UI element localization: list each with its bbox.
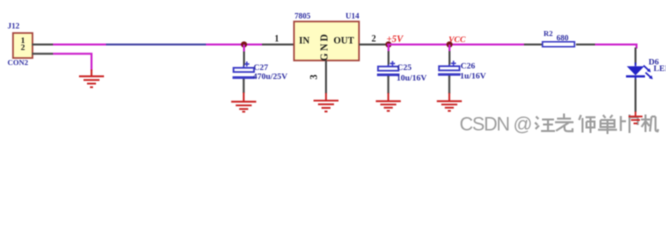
svg-text:3: 3 xyxy=(309,75,320,80)
wire C26 dark drop xyxy=(449,51,451,65)
wire +5V magenta rail xyxy=(387,44,524,46)
wire C27 to ground xyxy=(243,79,245,93)
svg-text:C26: C26 xyxy=(461,61,476,71)
wire C27 dark drop xyxy=(243,52,245,66)
svg-text:LED: LED xyxy=(654,63,666,73)
watermark hanzi DAN xyxy=(598,115,617,134)
ground GND1 (J12) xyxy=(79,70,104,88)
svg-text:10u/16V: 10u/16V xyxy=(397,72,428,82)
wire U14 input black segment xyxy=(262,44,294,46)
wire C25 dark drop xyxy=(388,51,390,65)
junction node +5V xyxy=(385,41,391,47)
LED D6 xyxy=(626,63,653,80)
J12 pin 2 lead xyxy=(32,53,53,55)
watermark hanzi WANG xyxy=(535,117,555,132)
svg-text:7805: 7805 xyxy=(295,12,311,21)
voltage regulator U1 body xyxy=(294,22,359,61)
capacitor C27 xyxy=(233,62,256,81)
wire pin1 magenta segment xyxy=(53,44,106,46)
U14 output pin lead xyxy=(359,44,387,46)
wire pin2 magenta to ground xyxy=(53,54,92,71)
capacitor C26 xyxy=(438,61,461,77)
wire C25 magenta drop xyxy=(388,45,390,52)
svg-text:CSDN @: CSDN @ xyxy=(460,115,532,136)
ground GND5 (C26) xyxy=(437,93,462,111)
watermark hanzi SHI xyxy=(579,115,596,133)
wire magenta segment to U14 xyxy=(206,44,262,46)
LED light arrow 2 xyxy=(646,73,652,79)
svg-text:OUT: OUT xyxy=(334,37,355,47)
svg-text:C25: C25 xyxy=(397,62,412,72)
svg-text:CON2: CON2 xyxy=(8,58,29,67)
wire LED anode dark drop xyxy=(635,48,637,65)
connector J12 xyxy=(13,33,33,58)
ground GND3 (C27) xyxy=(231,93,256,112)
wire C26 magenta drop xyxy=(449,45,451,52)
watermark hanzi JI xyxy=(641,115,658,133)
wire LED cathode to ground xyxy=(635,79,637,112)
ground GND2 (U14) xyxy=(314,93,339,112)
svg-text:470u/25V: 470u/25V xyxy=(253,71,288,81)
LED light arrow 1 xyxy=(644,66,650,72)
capacitor C25 xyxy=(377,61,400,78)
wire R2 left black lead xyxy=(524,44,543,46)
svg-text:1u/16V: 1u/16V xyxy=(460,70,487,80)
watermark hanzi LAO xyxy=(555,114,574,132)
svg-text:R2: R2 xyxy=(544,29,553,38)
svg-text:2: 2 xyxy=(21,42,25,52)
svg-text:1: 1 xyxy=(275,34,280,44)
svg-text:680: 680 xyxy=(557,33,569,42)
U14 ground pin lead xyxy=(325,61,327,94)
wire C27 magenta drop xyxy=(243,45,245,52)
wire C25 to ground xyxy=(387,76,389,94)
wire net blue segment xyxy=(106,44,206,46)
resistor R2 xyxy=(543,42,575,47)
svg-text:J12: J12 xyxy=(8,22,20,31)
wire R2 right black lead xyxy=(576,44,595,46)
svg-text:GND: GND xyxy=(320,32,331,61)
J12 pin 1 lead xyxy=(32,44,53,46)
svg-text:U14: U14 xyxy=(346,12,360,21)
svg-text:2: 2 xyxy=(372,34,377,44)
junction node C27 tap xyxy=(241,41,247,47)
watermark hanzi PIAN xyxy=(621,115,638,134)
wire C26 to ground xyxy=(448,76,450,94)
ground GND4 (C25) xyxy=(376,93,401,111)
svg-text:IN: IN xyxy=(299,37,310,47)
wire magenta to LED corner xyxy=(595,45,637,49)
ground GND6 (LED, small) xyxy=(629,112,643,124)
junction node VCC xyxy=(446,41,452,47)
